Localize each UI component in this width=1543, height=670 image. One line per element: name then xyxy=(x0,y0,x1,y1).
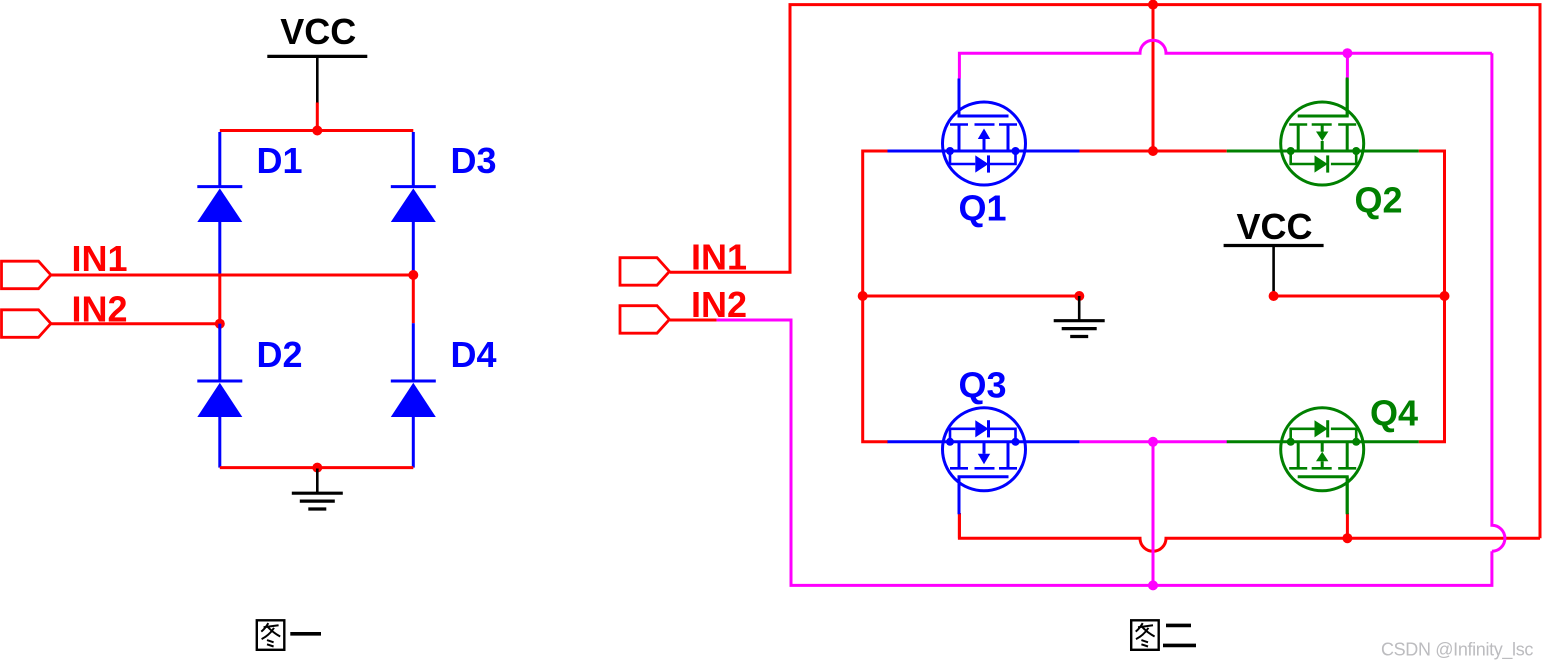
svg-text:D1: D1 xyxy=(257,140,303,181)
junction VCC pin (fig2) xyxy=(1269,291,1279,301)
caption 图二 xyxy=(1131,620,1159,650)
diode D1 xyxy=(218,132,221,275)
wire IN2 stub red (fig2) xyxy=(670,319,717,322)
nmos Q1 xyxy=(888,79,1080,186)
wire ground lead red (fig2) xyxy=(863,295,1080,298)
wire Q4 gate stub red (fig2) xyxy=(1346,513,1349,538)
svg-text:Q2: Q2 xyxy=(1355,180,1403,221)
junction VCC wire/right riser (fig2) xyxy=(1440,291,1450,301)
wire IN1 (fig1) xyxy=(51,274,413,277)
wire VCC to right riser (fig2) xyxy=(1274,295,1445,298)
ground symbol (fig1) xyxy=(292,469,343,510)
svg-text:Q3: Q3 xyxy=(959,365,1007,406)
wire top rail (fig1) xyxy=(220,129,413,132)
wire phase A red: corner + left riser (fig2) xyxy=(863,151,888,442)
svg-text:D2: D2 xyxy=(257,334,303,375)
wire mid riser red (fig2) xyxy=(1152,5,1155,151)
caption 图一 xyxy=(257,620,285,650)
nmos Q2 xyxy=(1227,79,1419,186)
svg-text:IN1: IN1 xyxy=(72,238,128,279)
junction phase A/gnd wire (fig2) xyxy=(858,291,868,301)
junction top rail/mid riser (fig2) xyxy=(1148,0,1158,10)
wire Q2 gate stub magenta (fig2) xyxy=(1346,53,1349,77)
wire right riser red (fig2) xyxy=(1419,151,1445,442)
junction ground (fig2) xyxy=(1074,291,1084,301)
junction IN2/left column (fig1) xyxy=(215,319,225,329)
port IN1 (fig2) xyxy=(620,258,669,286)
wire Q3 gate stub blue xyxy=(958,477,961,514)
wire phase B mid riser magenta (fig2) xyxy=(1152,442,1155,586)
ground symbol (fig2) xyxy=(1054,296,1105,337)
wire IN1 net: lead, riser, top rail, right edge (fig2) xyxy=(670,5,1540,539)
junction IN2 bottom rail/mid riser (fig2) xyxy=(1148,580,1158,590)
svg-text:CSDN @Infinity_lsc: CSDN @Infinity_lsc xyxy=(1381,640,1533,661)
svg-text:VCC: VCC xyxy=(1237,206,1313,247)
wire bottom rail (fig1) xyxy=(220,466,413,469)
wire Q4 gate stub green xyxy=(1346,477,1349,514)
wire phase B magenta: Q3-Q4 row (fig2) xyxy=(1080,440,1227,443)
wire Q3 gate stub red (fig2) xyxy=(958,513,961,538)
junction phase B row/mid riser (fig2) xyxy=(1148,437,1158,447)
wire VCC stub (fig1) xyxy=(316,103,319,131)
diode D4 xyxy=(412,323,415,467)
nmos Q4 xyxy=(1227,408,1419,515)
wire gate row magenta with hop (fig2) xyxy=(959,40,1492,78)
junction VCC/top rail (fig1) xyxy=(312,126,322,136)
svg-text:D4: D4 xyxy=(451,334,497,375)
svg-text:D3: D3 xyxy=(451,140,497,181)
port IN2 (fig2) xyxy=(620,306,669,334)
wire Q1 gate stub blue xyxy=(958,79,961,117)
power symbol VCC (fig1) xyxy=(267,56,367,104)
power symbol VCC (fig2) xyxy=(1224,246,1324,297)
nmos Q3 xyxy=(888,408,1080,515)
wire IN1 net: bottom rail with hop (fig2) xyxy=(959,513,1540,551)
port IN2 (fig1) xyxy=(2,310,51,338)
junction IN1/right column (fig1) xyxy=(408,270,418,280)
wire IN2 net magenta: lead, riser, bottom rail (fig2) xyxy=(717,320,1492,585)
diode D3 xyxy=(412,132,415,275)
wire drain row red Q1-Q2 (fig2) xyxy=(1079,150,1226,153)
junction Q2 gate/gate row (fig2) xyxy=(1342,48,1352,58)
junction Q4 gate/bottom rail (fig2) xyxy=(1342,533,1352,543)
svg-text:Q4: Q4 xyxy=(1370,393,1418,434)
wire IN1-net column segment (fig1) xyxy=(412,275,415,323)
svg-text:VCC: VCC xyxy=(280,11,356,52)
wire IN2-net column segment (fig1) xyxy=(218,275,221,324)
svg-text:Q1: Q1 xyxy=(959,188,1007,229)
wire Q2 gate stub green xyxy=(1346,78,1349,117)
wire IN2 (fig1) xyxy=(51,322,220,325)
wire IN2 net magenta: right riser with hop (fig2) xyxy=(1492,53,1505,551)
junction drain row/mid riser (fig2) xyxy=(1148,146,1158,156)
diode D2 xyxy=(218,324,221,468)
port IN1 (fig1) xyxy=(2,261,51,289)
junction ground/bottom rail (fig1) xyxy=(312,463,322,473)
